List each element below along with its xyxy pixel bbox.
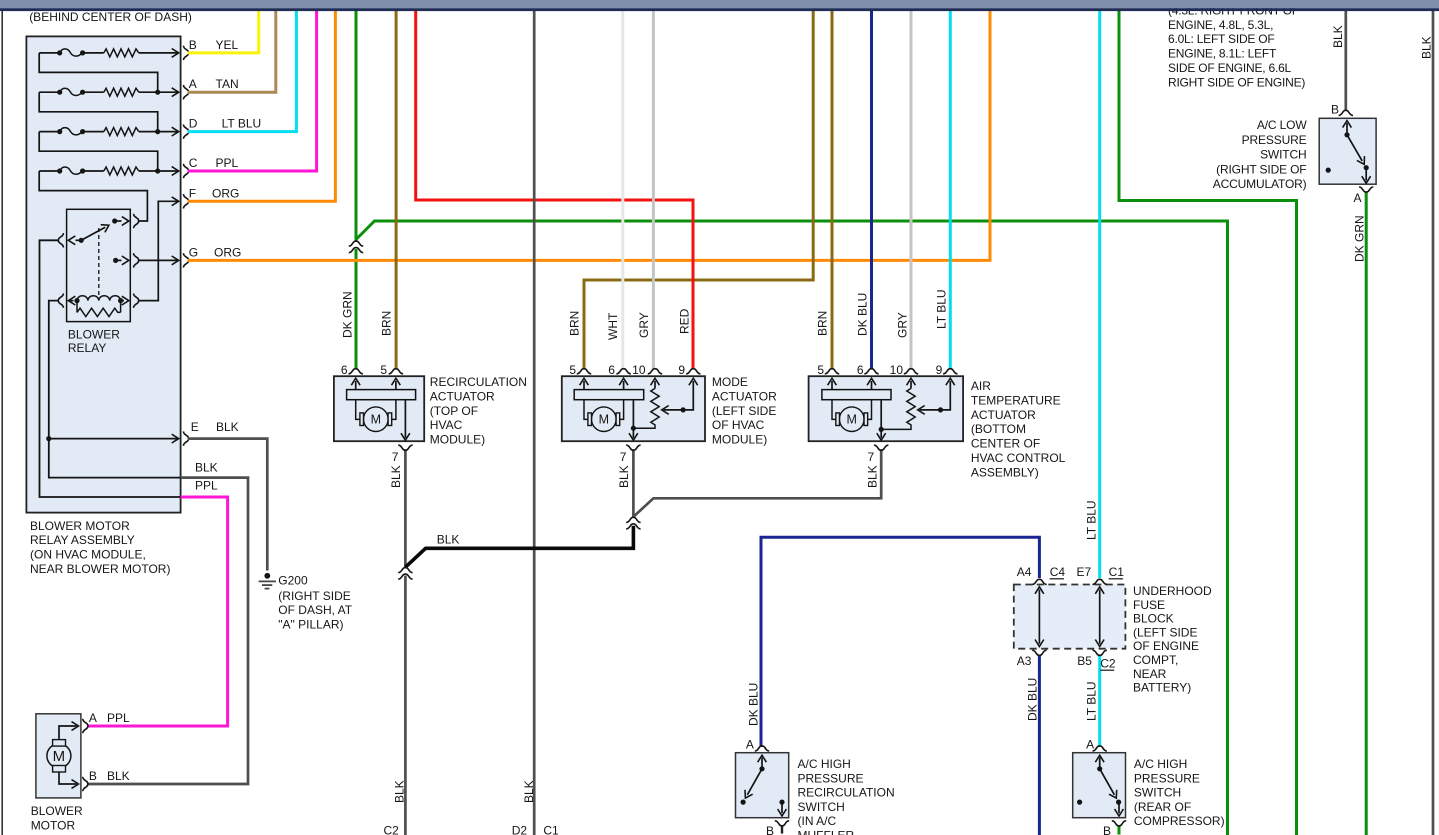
svg-text:7: 7 [620, 450, 627, 464]
svg-text:BLK: BLK [393, 780, 407, 803]
svg-text:ACCUMULATOR): ACCUMULATOR) [1213, 177, 1307, 191]
svg-text:(LEFT SIDE: (LEFT SIDE [712, 404, 776, 418]
svg-text:C: C [189, 156, 198, 170]
svg-text:LT BLU: LT BLU [1085, 500, 1099, 540]
svg-text:D: D [189, 117, 198, 131]
svg-text:(BEHIND CENTER OF DASH): (BEHIND CENTER OF DASH) [29, 10, 192, 24]
svg-text:RED: RED [678, 308, 692, 334]
svg-text:M: M [847, 413, 857, 427]
svg-text:B: B [189, 38, 197, 52]
svg-text:BLK: BLK [195, 461, 218, 475]
svg-text:"A" PILLAR): "A" PILLAR) [278, 618, 343, 632]
svg-text:E: E [191, 420, 199, 434]
svg-text:C4: C4 [1050, 565, 1066, 579]
svg-text:ENGINE, 8.1L: LEFT: ENGINE, 8.1L: LEFT [1168, 47, 1277, 61]
svg-text:10: 10 [890, 363, 904, 377]
svg-text:AIR: AIR [971, 379, 991, 393]
svg-text:5: 5 [380, 363, 387, 377]
svg-text:A3: A3 [1017, 654, 1032, 668]
svg-text:PPL: PPL [107, 711, 130, 725]
svg-text:OF ENGINE: OF ENGINE [1133, 639, 1199, 653]
svg-text:ACTUATOR: ACTUATOR [712, 389, 777, 403]
svg-text:RIGHT SIDE OF ENGINE): RIGHT SIDE OF ENGINE) [1168, 75, 1305, 89]
svg-text:6: 6 [857, 363, 864, 377]
svg-text:MODE: MODE [712, 375, 748, 389]
svg-text:RELAY: RELAY [68, 341, 106, 355]
svg-text:FUSE: FUSE [1133, 598, 1165, 612]
svg-text:BLOWER: BLOWER [68, 327, 120, 341]
svg-text:B: B [766, 824, 774, 835]
svg-text:G200: G200 [278, 574, 308, 588]
svg-text:ORG: ORG [214, 245, 241, 259]
svg-text:BLK: BLK [617, 465, 631, 488]
svg-text:M: M [53, 748, 66, 765]
svg-text:PRESSURE: PRESSURE [1242, 133, 1307, 147]
svg-text:GRY: GRY [637, 312, 651, 338]
svg-text:ACTUATOR: ACTUATOR [971, 408, 1036, 422]
svg-text:PPL: PPL [195, 479, 218, 493]
svg-text:PRESSURE: PRESSURE [798, 771, 864, 785]
svg-text:E7: E7 [1077, 565, 1092, 579]
svg-text:DK BLU: DK BLU [747, 683, 761, 726]
svg-text:LT BLU: LT BLU [935, 289, 949, 329]
svg-text:(LEFT SIDE: (LEFT SIDE [1133, 625, 1197, 639]
svg-text:(REAR OF: (REAR OF [1134, 800, 1191, 814]
svg-text:WHT: WHT [606, 312, 620, 340]
svg-text:G: G [189, 245, 198, 259]
svg-text:BLK: BLK [437, 533, 460, 547]
svg-text:YEL: YEL [216, 38, 239, 52]
svg-text:HVAC: HVAC [430, 418, 463, 432]
svg-text:SWITCH: SWITCH [1260, 148, 1306, 162]
svg-text:MOTOR: MOTOR [31, 818, 76, 832]
svg-text:B5: B5 [1077, 654, 1092, 668]
svg-text:A/C HIGH: A/C HIGH [798, 757, 851, 771]
svg-text:DK BLU: DK BLU [856, 293, 870, 336]
svg-text:ORG: ORG [212, 186, 239, 200]
svg-text:(IN A/C: (IN A/C [798, 814, 837, 828]
svg-text:F: F [189, 186, 196, 200]
svg-text:BLK: BLK [389, 465, 403, 488]
svg-text:BLK: BLK [216, 420, 239, 434]
svg-text:BRN: BRN [568, 311, 582, 336]
svg-text:C2: C2 [384, 824, 400, 835]
svg-text:(BOTTOM: (BOTTOM [971, 422, 1026, 436]
svg-text:5: 5 [817, 363, 824, 377]
svg-text:BRN: BRN [380, 311, 394, 336]
svg-text:ASSEMBLY): ASSEMBLY) [971, 465, 1039, 479]
svg-text:6: 6 [608, 363, 615, 377]
svg-text:DK GRN: DK GRN [341, 291, 355, 338]
svg-text:SWITCH: SWITCH [1134, 786, 1181, 800]
svg-text:MUFFLER: MUFFLER [798, 829, 855, 835]
svg-text:UNDERHOOD: UNDERHOOD [1133, 584, 1212, 598]
svg-text:BLK: BLK [1331, 25, 1345, 48]
svg-text:B: B [1331, 103, 1339, 117]
svg-text:D2: D2 [512, 824, 528, 835]
svg-text:BATTERY): BATTERY) [1133, 681, 1191, 695]
svg-text:NEAR: NEAR [1133, 667, 1167, 681]
svg-text:7: 7 [392, 450, 399, 464]
svg-text:PRESSURE: PRESSURE [1134, 771, 1200, 785]
svg-text:7: 7 [868, 450, 875, 464]
svg-text:BLOWER MOTOR: BLOWER MOTOR [30, 519, 130, 533]
svg-text:C1: C1 [1109, 565, 1125, 579]
svg-text:NEAR BLOWER MOTOR): NEAR BLOWER MOTOR) [30, 562, 170, 576]
svg-text:(RIGHT SIDE OF: (RIGHT SIDE OF [1216, 162, 1306, 176]
svg-text:A: A [1354, 191, 1362, 205]
svg-text:SWITCH: SWITCH [798, 800, 845, 814]
svg-text:(RIGHT SIDE: (RIGHT SIDE [278, 589, 350, 603]
svg-text:9: 9 [678, 363, 685, 377]
svg-text:(TOP OF: (TOP OF [430, 404, 478, 418]
svg-text:RECIRCULATION: RECIRCULATION [430, 375, 527, 389]
svg-text:9: 9 [936, 363, 943, 377]
svg-text:BLK: BLK [522, 780, 536, 803]
svg-text:ENGINE, 4.8L, 5.3L,: ENGINE, 4.8L, 5.3L, [1168, 18, 1273, 32]
svg-text:M: M [371, 413, 381, 427]
svg-text:TAN: TAN [216, 77, 239, 91]
svg-text:SIDE OF ENGINE, 6.6L: SIDE OF ENGINE, 6.6L [1168, 61, 1292, 75]
svg-text:CENTER OF: CENTER OF [971, 437, 1040, 451]
svg-text:A: A [189, 77, 197, 91]
svg-text:GRY: GRY [896, 312, 910, 338]
svg-text:BLK: BLK [107, 769, 130, 783]
svg-text:BLOWER: BLOWER [31, 804, 83, 818]
svg-text:BLK: BLK [866, 465, 880, 488]
svg-text:OF DASH, AT: OF DASH, AT [278, 603, 352, 617]
svg-text:COMPT,: COMPT, [1133, 653, 1178, 667]
svg-text:6: 6 [341, 363, 348, 377]
svg-text:A: A [89, 711, 97, 725]
svg-text:OF HVAC: OF HVAC [712, 418, 765, 432]
svg-text:DK GRN: DK GRN [1353, 215, 1367, 262]
svg-text:BLOCK: BLOCK [1133, 612, 1174, 626]
svg-text:MODULE): MODULE) [712, 433, 767, 447]
svg-text:A/C LOW: A/C LOW [1257, 118, 1307, 132]
svg-text:COMPRESSOR): COMPRESSOR) [1134, 814, 1225, 828]
svg-text:LT BLU: LT BLU [222, 117, 262, 131]
svg-text:TEMPERATURE: TEMPERATURE [971, 393, 1061, 407]
svg-text:ACTUATOR: ACTUATOR [430, 389, 495, 403]
svg-text:(ON HVAC MODULE,: (ON HVAC MODULE, [30, 548, 146, 562]
svg-text:DK BLU: DK BLU [1026, 678, 1040, 721]
svg-text:C1: C1 [543, 824, 559, 835]
svg-text:10: 10 [632, 363, 646, 377]
svg-text:LT BLU: LT BLU [1085, 681, 1099, 721]
svg-text:A: A [746, 738, 754, 752]
svg-text:BLK: BLK [1420, 36, 1434, 59]
svg-text:HVAC CONTROL: HVAC CONTROL [971, 451, 1066, 465]
svg-text:M: M [599, 413, 609, 427]
svg-text:5: 5 [569, 363, 576, 377]
svg-text:A/C HIGH: A/C HIGH [1134, 757, 1187, 771]
svg-text:RELAY ASSEMBLY: RELAY ASSEMBLY [30, 533, 135, 547]
svg-text:A: A [1086, 738, 1094, 752]
svg-text:A4: A4 [1017, 565, 1032, 579]
svg-text:B: B [1103, 824, 1111, 835]
svg-text:C2: C2 [1100, 657, 1116, 671]
svg-text:RECIRCULATION: RECIRCULATION [798, 786, 895, 800]
svg-text:MODULE): MODULE) [430, 433, 485, 447]
svg-text:B: B [89, 769, 97, 783]
svg-text:6.0L: LEFT SIDE OF: 6.0L: LEFT SIDE OF [1168, 32, 1275, 46]
svg-text:PPL: PPL [216, 156, 239, 170]
svg-text:BRN: BRN [816, 311, 830, 336]
